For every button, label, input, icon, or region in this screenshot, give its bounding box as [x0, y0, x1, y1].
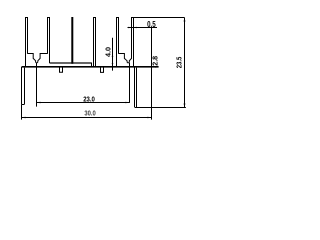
svg-text:23.5: 23.5: [176, 57, 183, 69]
extension line 23.0 left: [36, 63, 38, 107]
fin B: [47, 17, 50, 63]
platform step: [91, 63, 93, 67]
arrow 4.0 top: [112, 54, 114, 57]
left extension line 30.0: [21, 105, 23, 120]
dimension line 23.5: [184, 18, 186, 108]
arrow 4.0 bottom: [112, 63, 114, 66]
arrow 2.8 right: [155, 66, 158, 68]
left pin: [22, 67, 25, 105]
fin F: [131, 17, 134, 67]
screw channel A-B bottom: [36, 61, 38, 63]
arrow 23.5 bottom: [184, 104, 186, 108]
screw channel E-F bottom: [127, 61, 129, 63]
arrow 23.5 top: [184, 18, 186, 22]
arrow 30.0 right: [148, 117, 152, 119]
arrow 0.5 left: [129, 27, 132, 28]
fin C solid: [71, 17, 73, 64]
right pin: [135, 67, 137, 108]
bottom slot 2: [101, 67, 104, 72]
svg-text:23.0: 23.0: [83, 94, 95, 103]
bottom slot 1: [60, 67, 63, 72]
svg-text:4.0: 4.0: [105, 47, 112, 57]
svg-text:2.8: 2.8: [153, 56, 160, 66]
dimension line 23.0: [37, 102, 130, 104]
bottom extension line 23.5: [135, 107, 186, 109]
arrow 30.0 left: [22, 117, 26, 119]
dimension line 0.5: [128, 27, 158, 29]
dimension line 30.0: [22, 117, 152, 119]
fin D: [93, 17, 96, 67]
screw channel E-F: [119, 54, 132, 63]
screw channel A-B: [28, 54, 48, 63]
arrow 23.0 right: [126, 102, 130, 104]
platform thick line: [50, 62, 92, 63]
right edge wall: [151, 28, 153, 120]
top extension line 23.5: [134, 17, 185, 19]
arrow 0.5 right: [134, 27, 137, 28]
fin A: [25, 17, 28, 67]
svg-text:0.5: 0.5: [147, 20, 156, 29]
dimension line 4.0: [112, 38, 114, 71]
fin E: [116, 17, 119, 67]
extension line 23.0 right: [129, 63, 131, 103]
base plate thick line: [22, 66, 159, 68]
arrow 23.0 left: [37, 102, 41, 104]
svg-text:30.0: 30.0: [84, 109, 95, 118]
